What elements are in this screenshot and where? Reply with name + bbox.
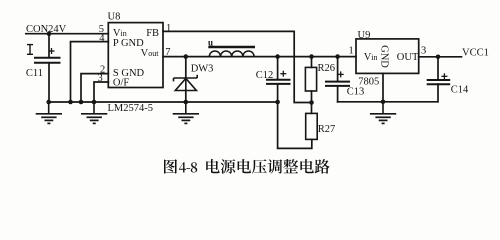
wire stub to ground at U9 [382, 102, 384, 114]
wire U9 ground rail [338, 101, 438, 103]
svg-text:C11: C11 [26, 68, 43, 79]
zener diode DW3 [174, 75, 198, 91]
node DW3 bottom [184, 100, 189, 105]
inductor L [208, 47, 255, 57]
node C12 bottom [275, 100, 280, 105]
ground symbol at U8 pin3 [81, 114, 107, 124]
svg-text:7: 7 [165, 47, 170, 58]
svg-text:4: 4 [99, 33, 105, 44]
svg-text:R27: R27 [318, 124, 336, 135]
svg-text:P GND: P GND [113, 38, 144, 49]
node ground rail pin3 [92, 100, 97, 105]
svg-text:GND: GND [379, 45, 390, 68]
svg-text:7805: 7805 [358, 77, 379, 88]
svg-text:LM2574-5: LM2574-5 [108, 103, 154, 114]
wire U8 pin1 FB to divider node [163, 31, 312, 102]
wire C14 top lead [437, 57, 439, 80]
capacitor C13 [325, 81, 350, 83]
wire U8 pin3 to ground [94, 82, 108, 102]
svg-text:C13: C13 [347, 87, 365, 98]
connector CON24V pin symbol [27, 45, 33, 55]
node ground rail pin2 [79, 100, 84, 105]
wire U8 pin4 to ground [71, 42, 109, 102]
op-amp U8 box [108, 23, 163, 88]
wire U8 pin7 output rail [163, 56, 356, 58]
node feedback divider [309, 100, 314, 105]
node ground rail C11 [46, 100, 51, 105]
svg-text:R26: R26 [318, 63, 336, 74]
svg-text:C14: C14 [451, 84, 469, 95]
svg-text:U8: U8 [108, 12, 121, 23]
ground symbol at DW3 [173, 114, 199, 124]
wire C11 bottom lead [48, 63, 50, 102]
resistor R27 [306, 113, 318, 139]
capacitor C12 [266, 79, 291, 81]
svg-text:C12: C12 [256, 70, 274, 81]
svg-text:Vout: Vout [141, 48, 160, 59]
svg-text:Vin: Vin [364, 52, 378, 63]
node ground rail pin4 [68, 100, 73, 105]
wire U9 GND pin lead [382, 73, 384, 101]
svg-text:1: 1 [166, 23, 171, 34]
wire C12 bottom lead [277, 84, 279, 102]
svg-text:1: 1 [349, 46, 354, 57]
svg-text:OUT: OUT [397, 52, 419, 63]
wire stub to ground at C11 [48, 102, 50, 114]
capacitor C11 [34, 57, 61, 59]
wire R26 top lead [311, 57, 313, 68]
svg-text:CON24V: CON24V [26, 24, 67, 35]
wire ground rail left [49, 101, 278, 103]
node C14 top [436, 55, 441, 60]
wire C13 bottom lead [337, 86, 339, 102]
svg-text:VCC1: VCC1 [462, 47, 489, 58]
node R26 top [309, 54, 314, 59]
wire DW3 bottom lead [185, 91, 187, 103]
capacitor C14 [427, 79, 451, 81]
svg-text:3: 3 [98, 73, 103, 84]
wire stub to ground at DW3 [185, 102, 187, 114]
node U9 GND [381, 100, 386, 105]
node DW3 top [184, 54, 189, 59]
wire R26 bottom lead [311, 91, 313, 103]
wire C14 bottom lead [437, 84, 439, 102]
svg-text:FB: FB [146, 28, 159, 39]
resistor R26 [305, 67, 316, 91]
svg-text:u: u [208, 37, 213, 47]
svg-text:3: 3 [421, 46, 426, 57]
wire C11 top lead [48, 34, 50, 58]
wire C12 top lead [277, 57, 279, 80]
svg-text:O/F: O/F [113, 78, 129, 89]
wire stub to ground at U8 pin3 [93, 102, 95, 114]
wire C13 top lead [337, 57, 339, 82]
ground symbol at C11 [36, 114, 62, 124]
op-amp U9 box [356, 39, 419, 74]
wire DW3 top lead [185, 57, 187, 78]
caption 图 4-8 电源电压调整电路 [164, 159, 330, 174]
wire U8 pin2 to ground [81, 74, 108, 102]
wire R27 bottom return to ground node [278, 102, 312, 148]
wire CON24V net [26, 33, 109, 35]
ground symbol at U9 [370, 114, 396, 124]
svg-text:DW3: DW3 [191, 64, 214, 75]
node CON24V junction [47, 31, 52, 36]
wire U9 pin3 to VCC1 [419, 56, 462, 58]
svg-text:U9: U9 [358, 30, 371, 41]
node C13 top [335, 54, 340, 59]
wire R27 top lead [311, 103, 313, 114]
node C12 top [275, 54, 280, 59]
